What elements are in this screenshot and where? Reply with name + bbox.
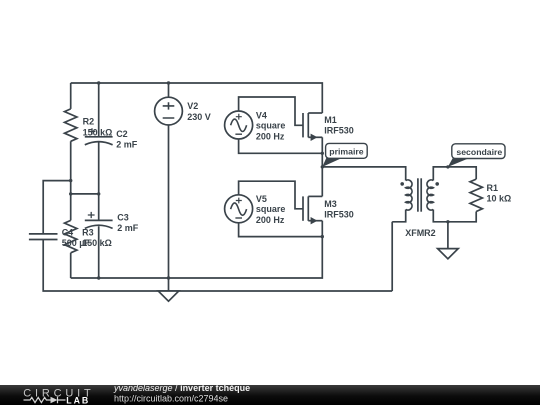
wire C4 bottom to ground bus	[43, 240, 392, 292]
node left/C3	[69, 192, 72, 195]
svg-text:R1: R1	[487, 183, 499, 193]
node top/V2	[167, 81, 170, 84]
wire primaire net	[322, 167, 405, 181]
svg-text:230 V: 230 V	[187, 112, 211, 122]
resistor R2	[65, 109, 77, 141]
wire left rail lower (R3 to bottom bus)	[70, 253, 72, 278]
wire V5 bottom to M3 source	[239, 223, 323, 237]
svg-text:200 Hz: 200 Hz	[256, 131, 285, 141]
svg-text:R2: R2	[83, 117, 95, 127]
capacitor C4	[29, 234, 58, 240]
footer bar	[0, 385, 540, 405]
transformer XFMR2	[400, 178, 439, 211]
svg-text:M3: M3	[324, 199, 337, 209]
node V2/bottom	[167, 276, 170, 279]
svg-text:150 kΩ: 150 kΩ	[82, 238, 112, 248]
node primaire	[321, 165, 324, 168]
svg-text:primaire: primaire	[329, 146, 363, 156]
wire V2 to ground	[168, 125, 170, 291]
wire primary return drop	[391, 222, 393, 291]
svg-text:secondaire: secondaire	[456, 147, 502, 157]
ground right	[438, 249, 459, 259]
svg-text:V2: V2	[187, 101, 198, 111]
svg-text:LAB: LAB	[66, 395, 90, 405]
svg-text:R3: R3	[82, 228, 94, 238]
svg-text:IRF530: IRF530	[324, 126, 354, 136]
wire secondaire net	[433, 167, 476, 181]
svg-text:10 kΩ: 10 kΩ	[487, 194, 512, 204]
svg-text:150 kΩ: 150 kΩ	[83, 127, 113, 137]
node top/C2	[97, 81, 100, 84]
svg-text:square: square	[256, 204, 286, 214]
svg-text:yvandelaserge / inverter tchèq: yvandelaserge / inverter tchèque	[113, 383, 250, 393]
wire left rail middle (R2 to R3)	[70, 141, 72, 220]
node secondary/ground	[446, 220, 449, 223]
wire C3 tee	[71, 193, 99, 195]
wire top bus	[71, 83, 323, 113]
resistor R1	[470, 179, 482, 211]
svg-text:http://circuitlab.com/c2794se: http://circuitlab.com/c2794se	[114, 393, 228, 403]
voltage source V5	[225, 195, 253, 223]
resistor R3	[65, 220, 77, 252]
svg-text:V4: V4	[256, 110, 267, 120]
svg-text:200 Hz: 200 Hz	[256, 215, 285, 225]
wire C4 branch top	[43, 181, 70, 234]
node secondaire	[446, 165, 449, 168]
svg-text:M1: M1	[324, 115, 337, 125]
capacitor C2	[85, 128, 113, 145]
node C3/bottom	[97, 276, 100, 279]
svg-text:C3: C3	[117, 212, 129, 222]
wire V4 loop to M1 gate	[239, 97, 303, 125]
transistor M1	[303, 113, 322, 196]
wire C2 to C3	[98, 143, 100, 221]
node M1 source/V4	[321, 152, 324, 155]
node C2/C3	[97, 192, 100, 195]
svg-text:C4: C4	[62, 228, 74, 238]
wire C2 branch	[98, 83, 100, 137]
wire bottom bus	[71, 237, 323, 278]
node M3 source/V5	[321, 235, 324, 238]
capacitor C3	[85, 212, 113, 229]
wire C3 to bottom bus	[98, 226, 100, 278]
logo squiggle	[24, 397, 66, 403]
wire V5 loop to M3 gate	[239, 181, 303, 209]
node left/C4	[69, 179, 72, 182]
voltage source V2	[155, 83, 183, 125]
svg-text:2 mF: 2 mF	[117, 223, 139, 233]
wire right ground stub	[447, 222, 449, 249]
wire V4 bottom to M1 source	[239, 139, 323, 153]
ground left	[158, 291, 179, 301]
flag primaire	[322, 143, 367, 167]
voltage source V4	[225, 111, 253, 139]
wire secondary bottom	[433, 210, 476, 222]
wire primary bottom return	[392, 210, 406, 222]
transistor M3	[303, 196, 322, 236]
svg-text:square: square	[256, 121, 286, 131]
svg-text:IRF530: IRF530	[324, 209, 354, 219]
svg-text:2 mF: 2 mF	[116, 140, 138, 150]
svg-text:C2: C2	[116, 129, 128, 139]
wire left rail upper (top bus to R2)	[70, 83, 72, 109]
svg-text:XFMR2: XFMR2	[405, 228, 436, 238]
flag secondaire	[448, 144, 505, 167]
svg-text:V5: V5	[256, 194, 267, 204]
